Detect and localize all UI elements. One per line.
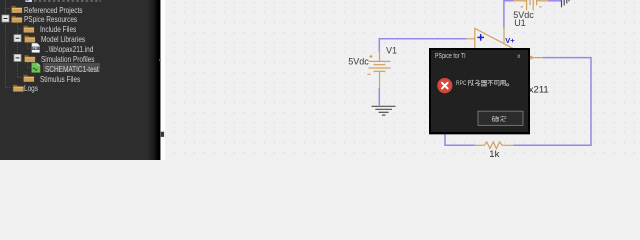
wire V1 minus to ground [378, 88, 380, 106]
ground 0 below V1 [372, 106, 396, 115]
op-amp plus input marker [477, 34, 484, 41]
button label 确定 [491, 116, 505, 122]
器 [481, 80, 487, 86]
svg-text:1k: 1k [489, 149, 499, 160]
left project-manager panel [0, 0, 160, 160]
svg-text:V1: V1 [386, 45, 397, 55]
服 [468, 80, 473, 86]
dialog message full stop [506, 84, 508, 86]
selection highlight for SCHEMATIC1-test [43, 63, 101, 72]
schematic canvas with grid dots [165, 0, 640, 160]
schematic green icon [32, 63, 41, 73]
project tree text rows [24, 5, 83, 15]
wire resistor to feedback node [445, 133, 475, 145]
white splitter strip [160, 0, 165, 160]
wire op-amp V+ supply [504, 1, 514, 28]
tree icons / lines svg [0, 0, 160, 160]
不 [487, 80, 493, 86]
wire V1 plus to op-amp input [379, 39, 466, 52]
supply source 5Vdc top (horizontal battery, cut at top) [514, 0, 549, 10]
partial icon of row cut at top [26, 0, 33, 2]
svg-text:5Vdc: 5Vdc [513, 10, 534, 20]
ground top-right (rotated, cut at top) [562, 0, 570, 7]
svg-text:x211: x211 [529, 85, 549, 96]
svg-text:5Vdc: 5Vdc [348, 57, 369, 67]
dialog OK button [478, 111, 523, 125]
splitter tick mark [161, 132, 165, 137]
splitter orange dot [159, 59, 161, 61]
dialog message CJK text 服务器不可用。 [468, 80, 505, 86]
dialog error icon [437, 78, 452, 93]
wire op-amp output to resistor [514, 58, 592, 146]
可 [493, 80, 499, 86]
resistor R 1k [475, 142, 514, 149]
务 [474, 80, 479, 86]
error dialog [429, 48, 530, 134]
.ind file icon [32, 43, 40, 52]
定 [500, 116, 506, 122]
schematic svg [0, 0, 640, 160]
确 [491, 116, 498, 121]
voltage source V1 [367, 51, 390, 89]
op-amp U1 triangle [467, 28, 544, 87]
用 [499, 80, 505, 86]
wire battery right to ground [548, 0, 561, 2]
svg-text:V+: V+ [505, 36, 515, 45]
